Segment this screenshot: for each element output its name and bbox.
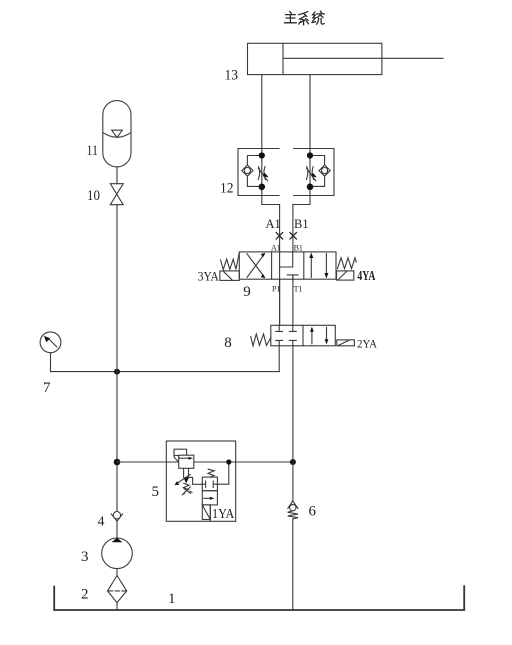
svg-text:8: 8 [224,335,232,351]
wire check4 to pump [116,521,118,538]
svg-text:B1: B1 [294,244,303,253]
svg-text:1: 1 [168,591,176,607]
right bypass check valve [319,165,330,176]
valve 9 centre position A1-B1 link [280,252,293,267]
node dot right rail y462 [290,459,296,465]
wire check6 to tank [292,519,294,610]
svg-text:B1: B1 [294,217,309,231]
node dot pilot tap [226,459,231,464]
relief valve main body [179,455,194,468]
wire P1 valve9 to valve8 [279,279,281,325]
check valve 4 [111,512,122,522]
wire cylinder left port to valve A1 [262,75,280,205]
node dot left bottom [259,184,266,191]
throttle check assembly 12 right frame [294,149,334,196]
left throttle valve [258,167,268,181]
wire pump to filter [116,569,118,576]
svg-text:4YA: 4YA [357,269,376,284]
pilot solenoid coil [202,505,210,521]
pressure gauge 7 [40,332,61,353]
wire pressure line to gauge [51,353,280,372]
valve 9 right square up arrow [309,253,313,278]
svg-text:13: 13 [225,68,239,84]
filter 2 [108,576,127,603]
svg-text:2YA: 2YA [357,339,378,351]
svg-text:2: 2 [81,587,89,603]
tank line 1 [54,586,464,610]
wire valve8 right port to tank rail [292,346,294,501]
wire relief line y462 [117,461,293,463]
relief valve adjustable spring [174,475,192,495]
check valve 6 [288,501,298,519]
valve 8 spring [251,334,271,346]
directional valve 9 body [239,252,336,279]
relief pilot connection wire [189,477,203,484]
pilot wire from relief line [217,462,228,484]
svg-text:6: 6 [309,504,317,520]
cylinder 13 [248,43,444,74]
node dot left top [259,152,265,158]
node dot right bottom [307,184,314,191]
valve 9 left square crossed arrows [247,253,265,278]
svg-text:7: 7 [43,380,51,396]
wire filter to tank [116,603,118,610]
cylinder piston [282,43,284,74]
valve 8 right square down arrow [325,327,329,344]
wire cylinder right port to valve B1 [293,75,310,205]
svg-text:5: 5 [152,484,160,500]
pump 3 [102,538,133,569]
valve 9 left spring [221,252,240,269]
pilot valve spring top [208,469,214,477]
wire B1 line down to valve 9 [292,205,294,252]
left bypass check valve [242,165,253,176]
wire accumulator to valve 10 [116,167,118,184]
node dot right top [307,152,313,158]
right throttle valve [306,167,317,181]
directional valve 8 body [271,325,336,346]
left bypass wire [247,156,261,187]
valve 9 right square down arrow [324,254,328,279]
svg-text:4: 4 [98,515,105,530]
pilot valve flow arrow head [210,497,214,500]
svg-text:T1: T1 [294,285,303,294]
title 主系统 [285,11,325,25]
accumulator 11 [103,101,131,167]
node dot pressure line x117 [114,369,120,375]
svg-text:A1: A1 [266,217,281,231]
relief valve funnel and arrow [183,468,189,483]
right bypass wire [310,156,325,187]
wire valve8 left port down to pressure line [278,346,280,372]
svg-text:9: 9 [243,284,251,300]
svg-text:A1: A1 [271,244,281,253]
wire T1 valve9 to valve8 [292,275,294,325]
svg-text:3YA: 3YA [198,270,219,284]
valve 9 right spring [338,258,357,269]
test point X on B1 [290,233,296,239]
svg-text:12: 12 [220,181,234,197]
wire left rail [116,205,118,512]
valve 9 T1 blocked port [287,275,298,279]
cylinder rod [283,57,443,59]
shut-off valve 10 [110,184,123,205]
node dot left rail gauge line [114,459,121,466]
test point X on A1 [276,233,282,239]
relief valve pilot flag [174,449,187,462]
wire A1 line down through valve 9 to valve 8 [279,205,281,326]
valve 8 right square up arrow [310,327,314,344]
valve 8 blocked ports [276,325,296,346]
svg-text:11: 11 [87,143,99,159]
pilot solenoid valve body 1YA [202,477,217,505]
svg-text:10: 10 [87,188,100,204]
svg-text:3: 3 [81,549,89,565]
throttle check assembly 12 left frame [238,149,279,196]
valve 8 solenoid 2YA [337,340,355,346]
relief block 5 frame [166,441,235,521]
svg-text:1YA: 1YA [212,506,235,521]
valve 9 left solenoid [220,271,239,281]
valve 9 right solenoid [337,271,354,280]
